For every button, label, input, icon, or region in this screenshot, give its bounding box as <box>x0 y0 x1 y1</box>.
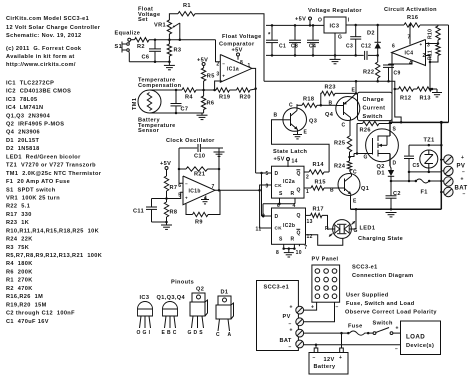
svg-text:*: * <box>268 33 271 39</box>
wire IC4 output down to rail <box>391 53 393 123</box>
svg-text:7: 7 <box>212 184 215 190</box>
svg-text:R9: R9 <box>195 220 203 226</box>
svg-text:Q2 IRF4905 P-MOS: Q2 IRF4905 P-MOS <box>6 122 64 128</box>
svg-text:CK: CK <box>275 226 283 231</box>
capacitor C12 <box>361 44 378 60</box>
svg-text:C9: C9 <box>394 71 401 77</box>
long wire from comparator to activation <box>264 81 402 123</box>
svg-text:−: − <box>336 305 339 311</box>
+5V terminal above R5 <box>197 58 208 66</box>
resistor R13 <box>414 87 438 102</box>
node battery positive <box>390 180 393 183</box>
svg-text:6: 6 <box>392 44 395 50</box>
svg-text:SCC3-e1: SCC3-e1 <box>352 265 378 271</box>
resistor R25 <box>334 136 352 161</box>
ground right of C10 <box>214 148 225 156</box>
node VR1 wiper junction <box>179 38 182 41</box>
svg-text:VR1: VR1 <box>154 23 166 29</box>
svg-text:IC1a: IC1a <box>227 66 239 72</box>
svg-text:−: − <box>462 170 465 176</box>
svg-text:Pinouts: Pinouts <box>171 280 194 286</box>
svg-text:Battery: Battery <box>314 364 336 370</box>
svg-text:R19,R20 15M: R19,R20 15M <box>6 302 47 308</box>
capacitor C10 <box>179 144 219 160</box>
label SCC3-e1 Connection Diagram <box>352 265 414 280</box>
svg-text:4: 4 <box>204 196 207 202</box>
wire TZ1 C5 bottom <box>409 168 441 173</box>
svg-text:Float Voltage: Float Voltage <box>222 34 262 40</box>
svg-text:+5V: +5V <box>274 157 285 163</box>
svg-text:2: 2 <box>216 62 219 68</box>
wire LED to return <box>351 209 356 229</box>
svg-text:12V: 12V <box>324 357 335 363</box>
svg-text:Charge: Charge <box>363 97 385 103</box>
regulator IC3 <box>318 17 350 41</box>
transistor Q1 <box>330 170 369 210</box>
svg-text:Schematic: Nov. 19, 2012: Schematic: Nov. 19, 2012 <box>6 33 82 39</box>
svg-text:Q: Q <box>297 171 301 177</box>
svg-text:Current: Current <box>363 106 386 112</box>
svg-text:TM1: TM1 <box>132 98 138 110</box>
svg-text:IC4: IC4 <box>405 51 414 57</box>
svg-text:SCC3-e1: SCC3-e1 <box>264 285 290 291</box>
svg-text:IC2a: IC2a <box>283 179 295 185</box>
svg-text:Circuit Activation: Circuit Activation <box>384 7 437 13</box>
svg-text:Fuse: Fuse <box>348 324 363 330</box>
resistor R26 <box>357 121 392 133</box>
svg-text:IC3: IC3 <box>330 24 340 30</box>
labels PV BAT terminals <box>455 155 468 198</box>
potentiometer VR1 <box>154 20 180 40</box>
svg-text:C5: C5 <box>413 163 420 169</box>
svg-text:+: + <box>185 196 188 201</box>
LED LED1 bicolor <box>325 220 358 239</box>
svg-text:Q2: Q2 <box>196 287 204 293</box>
+5V terminal regulator <box>295 17 312 26</box>
load plus minus labels <box>395 326 399 353</box>
svg-text:R15: R15 <box>315 180 326 186</box>
resistor R3 <box>167 34 181 65</box>
svg-text:R4: R4 <box>185 94 193 100</box>
svg-text:R: R <box>291 191 295 197</box>
pinout D1 TO-220 <box>216 290 234 339</box>
terminal PV+ <box>440 155 453 164</box>
svg-text:2: 2 <box>306 175 309 181</box>
svg-text:+: + <box>339 355 342 361</box>
svg-text:C1: C1 <box>279 44 286 50</box>
ground below R3 <box>164 64 175 66</box>
svg-text:Q2: Q2 <box>377 164 385 170</box>
svg-text:Observe Correct Load Polarity: Observe Correct Load Polarity <box>345 310 437 316</box>
terminal PV- <box>441 166 453 175</box>
terminal BAT+ conn <box>290 328 304 338</box>
svg-text:PV Panel: PV Panel <box>312 257 339 263</box>
svg-text:+: + <box>290 328 293 334</box>
svg-text:TM1 2.0K@25c NTC Thermistor: TM1 2.0K@25c NTC Thermistor <box>6 171 102 177</box>
pinout Q1 Q3 Q4 TO-92 <box>157 295 186 336</box>
label user supplied text <box>345 293 437 316</box>
battery 12V box <box>309 333 348 374</box>
svg-text:Q1: Q1 <box>361 186 369 192</box>
transistor Q4 pnp <box>321 80 360 128</box>
op-amp IC1b <box>178 176 215 205</box>
svg-text:R2: R2 <box>137 44 145 50</box>
svg-text:I: I <box>348 18 350 24</box>
node VR1 bottom junction <box>168 38 171 41</box>
+5V terminal clock <box>160 161 171 176</box>
svg-text:R8: R8 <box>170 210 178 216</box>
svg-text:D1: D1 <box>377 171 385 177</box>
svg-text:+: + <box>420 42 423 47</box>
svg-text:IC2b: IC2b <box>283 223 295 229</box>
svg-text:R3: R3 <box>174 48 182 54</box>
wire D input IC2a <box>256 172 272 174</box>
resistor R11 <box>427 45 440 62</box>
svg-text:+: + <box>222 74 225 79</box>
svg-text:D1: D1 <box>221 290 229 296</box>
svg-text:IC3 78L05: IC3 78L05 <box>6 97 37 103</box>
svg-text:R7: R7 <box>170 185 178 191</box>
svg-text:+: + <box>461 155 464 161</box>
svg-text:B: B <box>330 188 334 194</box>
terminal PV+ conn <box>290 305 304 315</box>
svg-text:Voltage Regulator: Voltage Regulator <box>308 8 362 14</box>
svg-text:D: D <box>275 214 279 220</box>
node C6 bottom <box>154 61 157 64</box>
svg-text:C: C <box>342 123 346 129</box>
svg-text:12 Volt Solar Charge Controlle: 12 Volt Solar Charge Controller <box>6 25 101 31</box>
svg-text:R5: R5 <box>207 74 215 80</box>
resistor R14 <box>304 162 329 174</box>
resistor R20 <box>230 88 256 101</box>
svg-text:+: + <box>290 305 293 311</box>
resistor R1 <box>178 3 195 16</box>
svg-text:F1 20 Amp ATO Fuse: F1 20 Amp ATO Fuse <box>6 179 70 185</box>
svg-text:VR1 100K 25 turn: VR1 100K 25 turn <box>6 195 60 201</box>
resistor R23 <box>321 85 357 106</box>
capacitor C4 <box>307 24 319 57</box>
ground IC1b pin4 <box>201 197 209 204</box>
pv panel box <box>312 265 340 302</box>
svg-text:Q4 2N3906: Q4 2N3906 <box>6 130 40 136</box>
svg-text:R23: R23 <box>325 85 336 91</box>
wire battery negative row <box>304 344 401 347</box>
op-amp IC4 <box>392 24 431 67</box>
svg-text:Q: Q <box>297 231 301 237</box>
resistor R15 <box>304 180 344 191</box>
svg-text:−: − <box>313 355 316 361</box>
svg-text:+: + <box>461 177 464 183</box>
capacitor C5 <box>404 145 420 182</box>
svg-text:Switch: Switch <box>373 321 394 327</box>
svg-text:CK: CK <box>275 183 283 188</box>
resistor R8 <box>164 199 177 226</box>
svg-text:LED1 Red/Green bicolor: LED1 Red/Green bicolor <box>6 154 81 160</box>
svg-text:13: 13 <box>307 219 313 225</box>
svg-text:14: 14 <box>292 159 298 165</box>
capacitor C6 <box>142 40 162 62</box>
svg-text:R22: R22 <box>363 70 374 76</box>
rail down right side <box>440 121 443 209</box>
svg-text:E B C: E B C <box>162 330 177 336</box>
svg-text:Q: Q <box>297 188 301 194</box>
svg-text:(c) 2011 G. Forrest Cook: (c) 2011 G. Forrest Cook <box>6 46 82 52</box>
capacitor C9 and pin4 wire <box>383 61 412 83</box>
wire clock output <box>215 189 260 191</box>
resistor R16 <box>404 15 449 27</box>
resistor R9 <box>186 190 220 225</box>
svg-text:R20: R20 <box>240 94 251 100</box>
svg-text:LED1: LED1 <box>360 226 376 232</box>
svg-text:IC2 CD4013BE CMOS: IC2 CD4013BE CMOS <box>6 89 71 95</box>
wire noninverting input <box>215 81 222 90</box>
ground below R8 <box>161 224 172 226</box>
svg-text:R22 5.1: R22 5.1 <box>6 204 30 210</box>
svg-text:PV: PV <box>283 314 291 320</box>
svg-text:8: 8 <box>276 250 279 256</box>
svg-text:R17 330: R17 330 <box>6 212 32 218</box>
resistor R17 <box>306 207 333 230</box>
svg-text:R24 22K: R24 22K <box>6 237 33 243</box>
svg-text:9: 9 <box>262 214 265 220</box>
svg-text:Connection Diagram: Connection Diagram <box>352 273 414 279</box>
svg-text:C6: C6 <box>142 55 150 61</box>
svg-text:D2: D2 <box>367 31 375 37</box>
resistor R21 <box>178 167 221 178</box>
ground bus under capacitors <box>266 54 341 56</box>
label Temperature Compensation <box>138 78 182 90</box>
svg-text:R14: R14 <box>313 162 325 168</box>
svg-text:User Supplied: User Supplied <box>346 293 389 299</box>
svg-text:Sensor: Sensor <box>138 128 160 134</box>
svg-text:R: R <box>325 226 329 232</box>
svg-text:S: S <box>393 127 397 133</box>
svg-text:State Latch: State Latch <box>273 149 308 155</box>
svg-text:R18: R18 <box>303 97 314 103</box>
terminal PV- conn <box>289 318 304 328</box>
positive rail <box>390 121 449 123</box>
svg-text:Q1,Q3,Q4: Q1,Q3,Q4 <box>157 295 186 301</box>
svg-text:R6: R6 <box>207 101 215 107</box>
charge current switch label box <box>358 92 393 120</box>
transistor Q3 <box>274 103 318 136</box>
resistor R19 <box>216 88 230 101</box>
svg-text:Clock Oscillator: Clock Oscillator <box>166 138 215 144</box>
node R3 bottom <box>168 61 171 64</box>
svg-text:S: S <box>279 191 283 197</box>
wire pin5 input <box>152 192 184 198</box>
wire IC1a output down <box>252 68 256 173</box>
wire R1 right down to activation bus <box>195 14 264 82</box>
svg-text:G D S: G D S <box>188 330 204 336</box>
svg-text:IC1b: IC1b <box>189 189 201 195</box>
svg-text:BAT: BAT <box>280 338 292 344</box>
wire Q2 source to rail <box>389 122 391 136</box>
transzorb TZ1 <box>420 150 438 168</box>
svg-text:R: R <box>291 237 295 243</box>
ground below R6 <box>197 114 208 116</box>
resistor R4 <box>182 88 196 101</box>
pinout Q2 TO-220 <box>188 287 208 337</box>
svg-text:A: A <box>228 332 232 338</box>
flip-flop IC2a <box>266 166 310 209</box>
load box <box>401 321 441 355</box>
svg-text:+: + <box>311 305 314 311</box>
svg-text:−: − <box>395 347 398 353</box>
node output R20 junction <box>254 87 257 90</box>
right feedback rail <box>448 25 450 122</box>
wire TM1 top to R4 <box>150 89 183 91</box>
wire IC2b D input <box>261 173 263 216</box>
label Float Voltage Set <box>138 7 160 24</box>
svg-text:Compensation: Compensation <box>138 83 182 89</box>
svg-text:10: 10 <box>296 250 302 256</box>
resistor R7 <box>164 176 177 199</box>
svg-text:6: 6 <box>178 183 181 189</box>
equalize terminal <box>128 38 131 41</box>
svg-text:−: − <box>185 181 188 186</box>
resistor R18 <box>297 97 322 108</box>
svg-text:R10,R11,R14,R15,R18,R25 10K: R10,R11,R14,R15,R18,R25 10K <box>6 228 99 234</box>
svg-text:D1 20L15T: D1 20L15T <box>6 138 40 144</box>
svg-text:B: B <box>274 113 278 119</box>
wire R1 left to VR1 <box>169 14 178 20</box>
svg-text:C10: C10 <box>194 154 205 160</box>
wire battery positive row <box>304 332 348 335</box>
+5V terminal latch pin14 <box>274 157 298 168</box>
svg-text:R17: R17 <box>313 207 324 213</box>
svg-text:+5V: +5V <box>295 17 306 23</box>
capacitor C7 <box>171 90 189 113</box>
resistor R22 <box>363 55 380 82</box>
svg-text:R13: R13 <box>420 96 431 102</box>
svg-text:F1: F1 <box>421 190 428 196</box>
scc3 box connection diagram <box>257 281 299 351</box>
resistor R6 <box>201 90 214 113</box>
svg-text:−: − <box>222 61 225 66</box>
diode D2 <box>367 24 381 57</box>
wire CK input IC2a <box>260 185 272 190</box>
svg-text:R5,R7,R8,R9,R12,R13,R21 100K: R5,R7,R8,R9,R12,R13,R21 100K <box>6 253 102 259</box>
bottom return wire <box>351 208 442 210</box>
switch lower <box>367 328 401 335</box>
svg-text:Set: Set <box>138 17 148 23</box>
svg-text:Q: Q <box>297 213 301 219</box>
svg-text:R6 200K: R6 200K <box>6 269 33 275</box>
svg-text:D2 1N5818: D2 1N5818 <box>6 146 40 152</box>
parts list text <box>6 80 102 324</box>
svg-text:S1 SPDT switch: S1 SPDT switch <box>6 187 56 193</box>
svg-text:−: − <box>463 192 466 198</box>
svg-text:R23 1K: R23 1K <box>6 220 29 226</box>
svg-text:R2 470K: R2 470K <box>6 286 33 292</box>
svg-text:TZ1: TZ1 <box>424 138 435 144</box>
fuse F1 <box>391 179 444 196</box>
terminal BAT+ <box>444 177 453 186</box>
feedback loop left wire <box>179 148 183 183</box>
pinout IC3 TO-92 <box>137 295 153 336</box>
svg-text:Device(s): Device(s) <box>406 343 434 349</box>
capacitor C1 <box>266 24 286 57</box>
svg-text:R21: R21 <box>194 172 205 178</box>
svg-text:R16: R16 <box>407 15 418 21</box>
terminal BAT- <box>440 187 453 196</box>
svg-text:2: 2 <box>423 53 426 59</box>
svg-text:C: C <box>216 332 220 338</box>
svg-text:G: G <box>364 155 368 161</box>
ground right of R13 <box>432 89 442 97</box>
svg-text:IC4 LM741N: IC4 LM741N <box>6 105 43 111</box>
svg-text:IC1 TLC2272CP: IC1 TLC2272CP <box>6 80 54 86</box>
wire pv panel negative lead <box>304 302 339 322</box>
svg-text:R16,R26 1M: R16,R26 1M <box>6 294 43 300</box>
flip-flop IC2b <box>256 208 313 256</box>
svg-text:1: 1 <box>248 63 251 69</box>
svg-text:S1: S1 <box>115 44 123 50</box>
svg-text:+: + <box>396 326 399 332</box>
wire IC2a SR stubs <box>263 198 295 216</box>
svg-text:D: D <box>393 161 397 167</box>
svg-text:R1 270K: R1 270K <box>6 278 33 284</box>
capacitor C3 <box>341 24 364 57</box>
svg-text:LOAD: LOAD <box>406 334 425 341</box>
svg-text:G: G <box>338 35 342 41</box>
wire pv panel positive lead <box>304 302 317 310</box>
wire Q4 collector down <box>349 121 351 137</box>
svg-text:CirKits.com Model SCC3-e1: CirKits.com Model SCC3-e1 <box>6 16 89 22</box>
switch S1 <box>115 41 130 62</box>
svg-text:R25: R25 <box>334 141 345 147</box>
wire equalize node <box>149 39 216 41</box>
wire IC4 pin2 <box>426 56 432 91</box>
svg-text:C2 through C12 100nF: C2 through C12 100nF <box>6 311 75 317</box>
resistor R5 <box>201 66 214 91</box>
IC2b bottom stubs and ground <box>282 244 299 257</box>
capacitor C2 <box>386 181 401 211</box>
svg-text:R24: R24 <box>334 164 346 170</box>
svg-text:Comparator: Comparator <box>219 41 255 47</box>
wire IC2b pin12 to LED <box>306 235 343 245</box>
node C6 top junction <box>154 38 157 41</box>
svg-text:E: E <box>304 130 308 136</box>
wire equalize bottom return <box>129 61 169 63</box>
label Float Voltage Comparator <box>219 34 262 48</box>
capacitor C8 <box>289 24 301 57</box>
svg-text:E: E <box>352 88 356 94</box>
feedback loop right wire <box>218 148 220 190</box>
svg-text:+5V: +5V <box>232 48 243 54</box>
svg-text:O: O <box>318 18 322 24</box>
svg-text:C12: C12 <box>361 44 371 50</box>
+5V terminal for IC1a pin 8 <box>232 48 244 67</box>
svg-text:R3 75K: R3 75K <box>6 245 29 251</box>
svg-text:R4 180K: R4 180K <box>6 261 33 267</box>
svg-text:R12: R12 <box>400 96 411 102</box>
wire TZ1 C5 top <box>409 144 443 147</box>
svg-text:TZ1 V7270 or V727 Transzorb: TZ1 V7270 or V727 Transzorb <box>6 163 96 169</box>
resistor R10 <box>426 25 441 45</box>
wire R26 left down to gate node <box>350 124 359 157</box>
IC3 ground stem <box>330 33 341 64</box>
svg-text:7: 7 <box>304 245 307 251</box>
svg-text:S: S <box>279 237 283 243</box>
wire TM1 bottom <box>150 112 204 114</box>
svg-text:Available in kit form at: Available in kit form at <box>6 54 75 60</box>
svg-text:Q4: Q4 <box>325 112 334 118</box>
+5V top bus <box>266 24 324 26</box>
svg-text:Switch: Switch <box>363 114 384 120</box>
ground below C2 <box>386 212 397 214</box>
